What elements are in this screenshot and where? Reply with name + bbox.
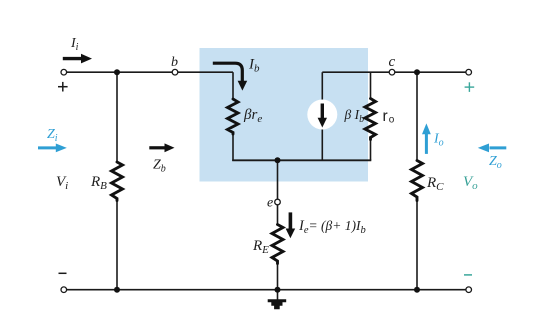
minus sign input: [59, 272, 67, 274]
arrow Io (blue): [422, 123, 444, 153]
wire: corner down to betare top lead: [232, 72, 234, 99]
wire: ro bottom lead: [370, 140, 372, 161]
svg-text:RE: RE: [252, 238, 269, 256]
minus sign output (teal): [464, 274, 472, 276]
controlled current source beta-Ib: [307, 100, 364, 130]
wire: RC branch: [416, 72, 418, 160]
input terminal bottom: [61, 287, 67, 293]
wire: inner bottom rail of model: [232, 159, 371, 161]
wire: current source branch lower: [321, 130, 323, 161]
svg-text:RC: RC: [426, 175, 444, 193]
svg-text:Zb: Zb: [153, 158, 166, 175]
node c: [389, 54, 396, 75]
arrow Zi (blue): [38, 127, 67, 152]
junction dot at RE bottom: [275, 287, 281, 293]
resistor beta-re U-model: [228, 99, 263, 134]
ground: [268, 290, 287, 310]
wire: ro top lead: [370, 72, 372, 98]
resistor RB: [90, 162, 123, 201]
junction dot at RC bottom: [414, 287, 420, 293]
svg-text:Vi: Vi: [56, 174, 68, 192]
transistor-model shaded region: [200, 48, 369, 182]
arrow Zo (blue): [478, 144, 507, 172]
svg-text:e: e: [267, 196, 273, 211]
arrow Zb (black): [149, 143, 174, 174]
svg-text:b: b: [171, 55, 178, 70]
svg-text:Zi: Zi: [47, 127, 58, 144]
wire: current source branch upper: [321, 72, 323, 100]
plus sign output (teal): [465, 82, 475, 92]
arrow Ii: [63, 36, 92, 63]
resistor RC: [412, 161, 445, 201]
plus sign input: [58, 82, 68, 92]
resistor ro: [365, 99, 395, 140]
output terminal top: [466, 69, 472, 75]
wire: betare bottom lead: [232, 134, 234, 161]
output terminal bottom: [466, 287, 472, 293]
svg-text:Io: Io: [433, 132, 444, 149]
arrow Ib (curved): [213, 57, 260, 91]
wire: emitter branch down to RE: [277, 160, 279, 224]
arrow Ie with label: [286, 212, 366, 238]
junction dot at emitter on inner rail: [275, 157, 281, 163]
resistor RE: [252, 225, 283, 264]
junction dot at RC top: [414, 69, 420, 75]
svg-text:c: c: [389, 54, 396, 70]
svg-text:Ii: Ii: [70, 36, 79, 53]
wire: RB branch: [116, 72, 118, 162]
svg-text:r: r: [383, 108, 388, 125]
svg-text:o: o: [389, 115, 395, 126]
svg-text:Zo: Zo: [489, 154, 502, 171]
svg-text:Ie= (β+ 1)Ib: Ie= (β+ 1)Ib: [298, 218, 366, 236]
junction dot at RB bottom: [114, 287, 120, 293]
node b: [171, 55, 178, 75]
wire: bottom rail: [64, 289, 469, 291]
svg-text:Vo: Vo: [463, 174, 478, 192]
svg-text:RB: RB: [90, 174, 107, 192]
wire: top-left rail from input terminal through b to betare corner: [64, 71, 233, 73]
node e: [267, 196, 280, 211]
wire: top-right rail from current source through c to output terminal: [322, 71, 468, 73]
input terminal top: [61, 69, 67, 75]
junction dot at RB top: [114, 69, 120, 75]
